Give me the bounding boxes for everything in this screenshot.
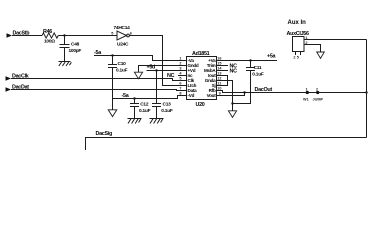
svg-text:+5d: +5d bbox=[147, 65, 156, 71]
wire Vout pin9 to output node bbox=[221, 93, 245, 96]
svg-text:10: 10 bbox=[217, 87, 221, 91]
wire AuxCl pin1 to right bus bbox=[304, 39, 367, 41]
svg-text:C12: C12 bbox=[140, 101, 149, 107]
node C11 return bbox=[231, 102, 233, 104]
wire +5d down to C13 bbox=[156, 71, 158, 104]
wire DacClk to pin5 bbox=[11, 79, 182, 81]
pin numbers right 16-9 bbox=[217, 57, 222, 96]
wire DacDat to pin7 bbox=[11, 90, 182, 91]
jumper W1 bbox=[303, 87, 324, 101]
wire DacStb to R46 bbox=[12, 35, 42, 37]
net -5a (lower) bbox=[113, 93, 183, 99]
svg-text:DacOut: DacOut bbox=[255, 87, 273, 93]
svg-text:6: 6 bbox=[179, 82, 181, 86]
no-connect pin 15 bbox=[221, 64, 237, 70]
capacitor C10 bbox=[108, 56, 128, 110]
wire Iout pin13 to Sj pin11 bbox=[221, 76, 228, 86]
node C11 tap bbox=[249, 59, 251, 61]
ground (earth) C13 bbox=[150, 119, 164, 124]
svg-text:C48: C48 bbox=[71, 41, 80, 47]
svg-text:0.1uF: 0.1uF bbox=[161, 108, 173, 114]
resistor R46 bbox=[42, 29, 58, 45]
svg-text:+5a: +5a bbox=[267, 53, 277, 59]
svg-text:0.1uF: 0.1uF bbox=[116, 68, 128, 74]
wire Rfb pin10 / DacOut bbox=[221, 87, 367, 93]
svg-text:W1: W1 bbox=[303, 98, 309, 102]
capacitor C12 bbox=[130, 99, 151, 119]
port DacClk bbox=[6, 73, 29, 80]
net -5a (upper) bbox=[94, 50, 182, 60]
svg-text:15: 15 bbox=[217, 62, 221, 66]
svg-text:JUMP: JUMP bbox=[313, 98, 324, 102]
IC U20 AD1851 bbox=[187, 51, 217, 108]
capacitor C11 bbox=[233, 61, 264, 104]
svg-text:7: 7 bbox=[179, 87, 181, 91]
svg-text:R46: R46 bbox=[43, 29, 52, 35]
node DacOut/right bus bbox=[365, 91, 367, 93]
wire inverter output to Ltch pin6 bbox=[129, 36, 182, 86]
ground (arrow) Gndd bbox=[134, 72, 142, 79]
svg-text:9: 9 bbox=[219, 92, 221, 96]
svg-text:11: 11 bbox=[217, 82, 221, 86]
svg-text:-Vd: -Vd bbox=[188, 93, 195, 98]
svg-text:DacSig: DacSig bbox=[96, 131, 112, 137]
svg-text:NC: NC bbox=[230, 69, 238, 75]
ground (arrow) Gnda bbox=[228, 111, 236, 118]
svg-text:Vout: Vout bbox=[207, 93, 217, 98]
svg-text:74HC14: 74HC14 bbox=[114, 25, 131, 31]
wire Gnda pin12 to ground bbox=[221, 81, 233, 111]
node C48 tap bbox=[63, 34, 65, 36]
svg-text:C10: C10 bbox=[118, 61, 127, 67]
svg-text:1: 1 bbox=[306, 87, 308, 91]
capacitor C48 bbox=[60, 36, 82, 62]
svg-text:Aux In: Aux In bbox=[288, 20, 307, 26]
svg-text:3: 3 bbox=[179, 67, 181, 71]
svg-text:C11: C11 bbox=[254, 65, 262, 71]
no-connect label pin 4 bbox=[167, 73, 182, 79]
node C10 tap bbox=[111, 54, 113, 56]
svg-text:2: 2 bbox=[293, 55, 295, 59]
net +5a bbox=[221, 53, 277, 60]
node C12 tap bbox=[133, 97, 135, 99]
svg-text:100Ω: 100Ω bbox=[44, 39, 55, 45]
wire right bus vertical bbox=[366, 40, 368, 138]
svg-text:2: 2 bbox=[316, 87, 318, 91]
svg-text:Ad1851: Ad1851 bbox=[192, 51, 210, 57]
inverter U24C 74HC14 bbox=[111, 25, 132, 47]
svg-text:0.1uF: 0.1uF bbox=[139, 108, 151, 114]
svg-text:U20: U20 bbox=[196, 102, 205, 108]
svg-text:1: 1 bbox=[179, 57, 181, 61]
svg-text:U24C: U24C bbox=[117, 42, 129, 48]
svg-text:100pF: 100pF bbox=[69, 48, 82, 54]
node pin9 join bbox=[243, 91, 245, 93]
ground (arrow) AuxCl bbox=[317, 52, 325, 58]
svg-text:0.1uF: 0.1uF bbox=[252, 72, 264, 78]
wire DacSig bottom bbox=[86, 131, 367, 150]
ground (arrow) below C10 bbox=[108, 110, 117, 117]
svg-text:5: 5 bbox=[179, 77, 181, 81]
svg-text:C13: C13 bbox=[163, 101, 172, 107]
pin stubs left bbox=[182, 61, 187, 96]
svg-text:5: 5 bbox=[111, 31, 113, 35]
pin stubs right bbox=[217, 61, 222, 96]
svg-text:8: 8 bbox=[179, 92, 181, 96]
pin numbers left 1-8 bbox=[179, 57, 182, 96]
net +5d bbox=[147, 65, 183, 71]
wire R46 to inverter input bbox=[58, 35, 116, 37]
pin names right bbox=[204, 58, 216, 98]
capacitor C13 bbox=[152, 101, 173, 118]
connector J56 AuxCl bbox=[287, 31, 309, 59]
wire Gndd pin2 to ground bbox=[139, 66, 183, 73]
port DacStb bbox=[7, 30, 31, 37]
pin names left bbox=[188, 58, 199, 98]
ground (earth) C12 bbox=[128, 119, 142, 124]
svg-text:13: 13 bbox=[217, 72, 221, 76]
node +5d / C13 tap bbox=[155, 69, 157, 71]
svg-text:6: 6 bbox=[130, 31, 132, 35]
svg-text:2: 2 bbox=[179, 62, 181, 66]
svg-text:5: 5 bbox=[297, 55, 299, 59]
no-connect pin 14 bbox=[221, 69, 237, 75]
wire AuxCl pin2 to ground bbox=[304, 45, 321, 53]
svg-text:16: 16 bbox=[217, 57, 221, 61]
ground (earth) C48 bbox=[59, 62, 72, 66]
svg-text:12: 12 bbox=[217, 77, 221, 81]
port DacDat bbox=[6, 84, 30, 91]
